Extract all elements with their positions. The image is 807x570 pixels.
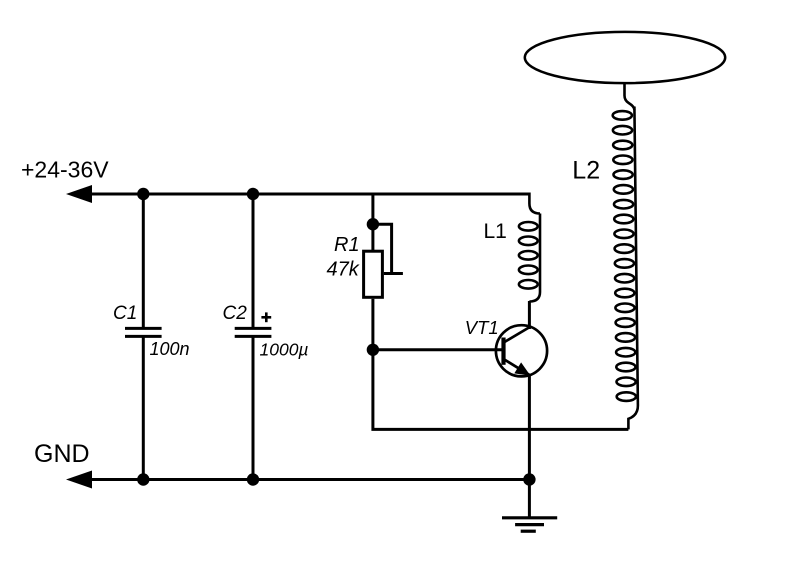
arrow GND rail <box>66 471 92 489</box>
wire C1 bottom lead <box>142 336 145 479</box>
arrow +24-36V rail <box>66 185 92 203</box>
wire C2 top lead <box>252 194 255 328</box>
junction R1 wiper node <box>367 218 379 230</box>
svg-text:GND: GND <box>34 440 90 468</box>
svg-text:L1: L1 <box>484 220 507 243</box>
wire collector lead <box>528 301 531 329</box>
inductor L2 <box>613 107 638 430</box>
wire C2 bottom lead <box>252 336 255 479</box>
svg-text:R1: R1 <box>334 234 360 256</box>
wire ground stem <box>528 480 531 518</box>
svg-text:C1: C1 <box>113 303 137 324</box>
wire R1 wiper link <box>373 224 392 273</box>
topload electrode <box>525 32 725 83</box>
svg-text:C2: C2 <box>223 303 248 324</box>
svg-text:47k: 47k <box>327 258 360 280</box>
junction C2 top <box>247 188 259 200</box>
wire top rail <box>88 193 529 196</box>
junction C1 bottom <box>137 473 149 485</box>
wire base <box>373 348 502 351</box>
wire GND rail <box>88 478 529 481</box>
junction base node <box>367 344 379 356</box>
wire C1 top lead <box>142 194 145 328</box>
junction C1 top <box>137 188 149 200</box>
polarity + of C2 <box>261 312 271 322</box>
capacitor C1 <box>125 328 162 336</box>
capacitor C2 <box>235 328 272 336</box>
transistor VT1 <box>496 325 547 376</box>
svg-text:1000µ: 1000µ <box>260 339 309 359</box>
svg-text:L2: L2 <box>572 157 600 185</box>
svg-text:100n: 100n <box>150 339 190 359</box>
junction C2 bottom <box>247 473 259 485</box>
svg-text:+24-36V: +24-36V <box>21 157 109 183</box>
wire R1 bottom lead <box>371 299 374 350</box>
wiper bar of R1 <box>384 272 403 275</box>
inductor L1 <box>519 193 540 302</box>
wire topload stem <box>625 83 635 111</box>
wire emitter lead <box>528 374 531 480</box>
ground <box>502 518 557 531</box>
resistor R1 <box>364 251 383 297</box>
svg-text:VT1: VT1 <box>465 317 499 338</box>
wire R1 top lead <box>371 194 374 251</box>
wire feedback to L2 bottom <box>373 350 629 430</box>
junction emitter-GND <box>523 473 535 485</box>
